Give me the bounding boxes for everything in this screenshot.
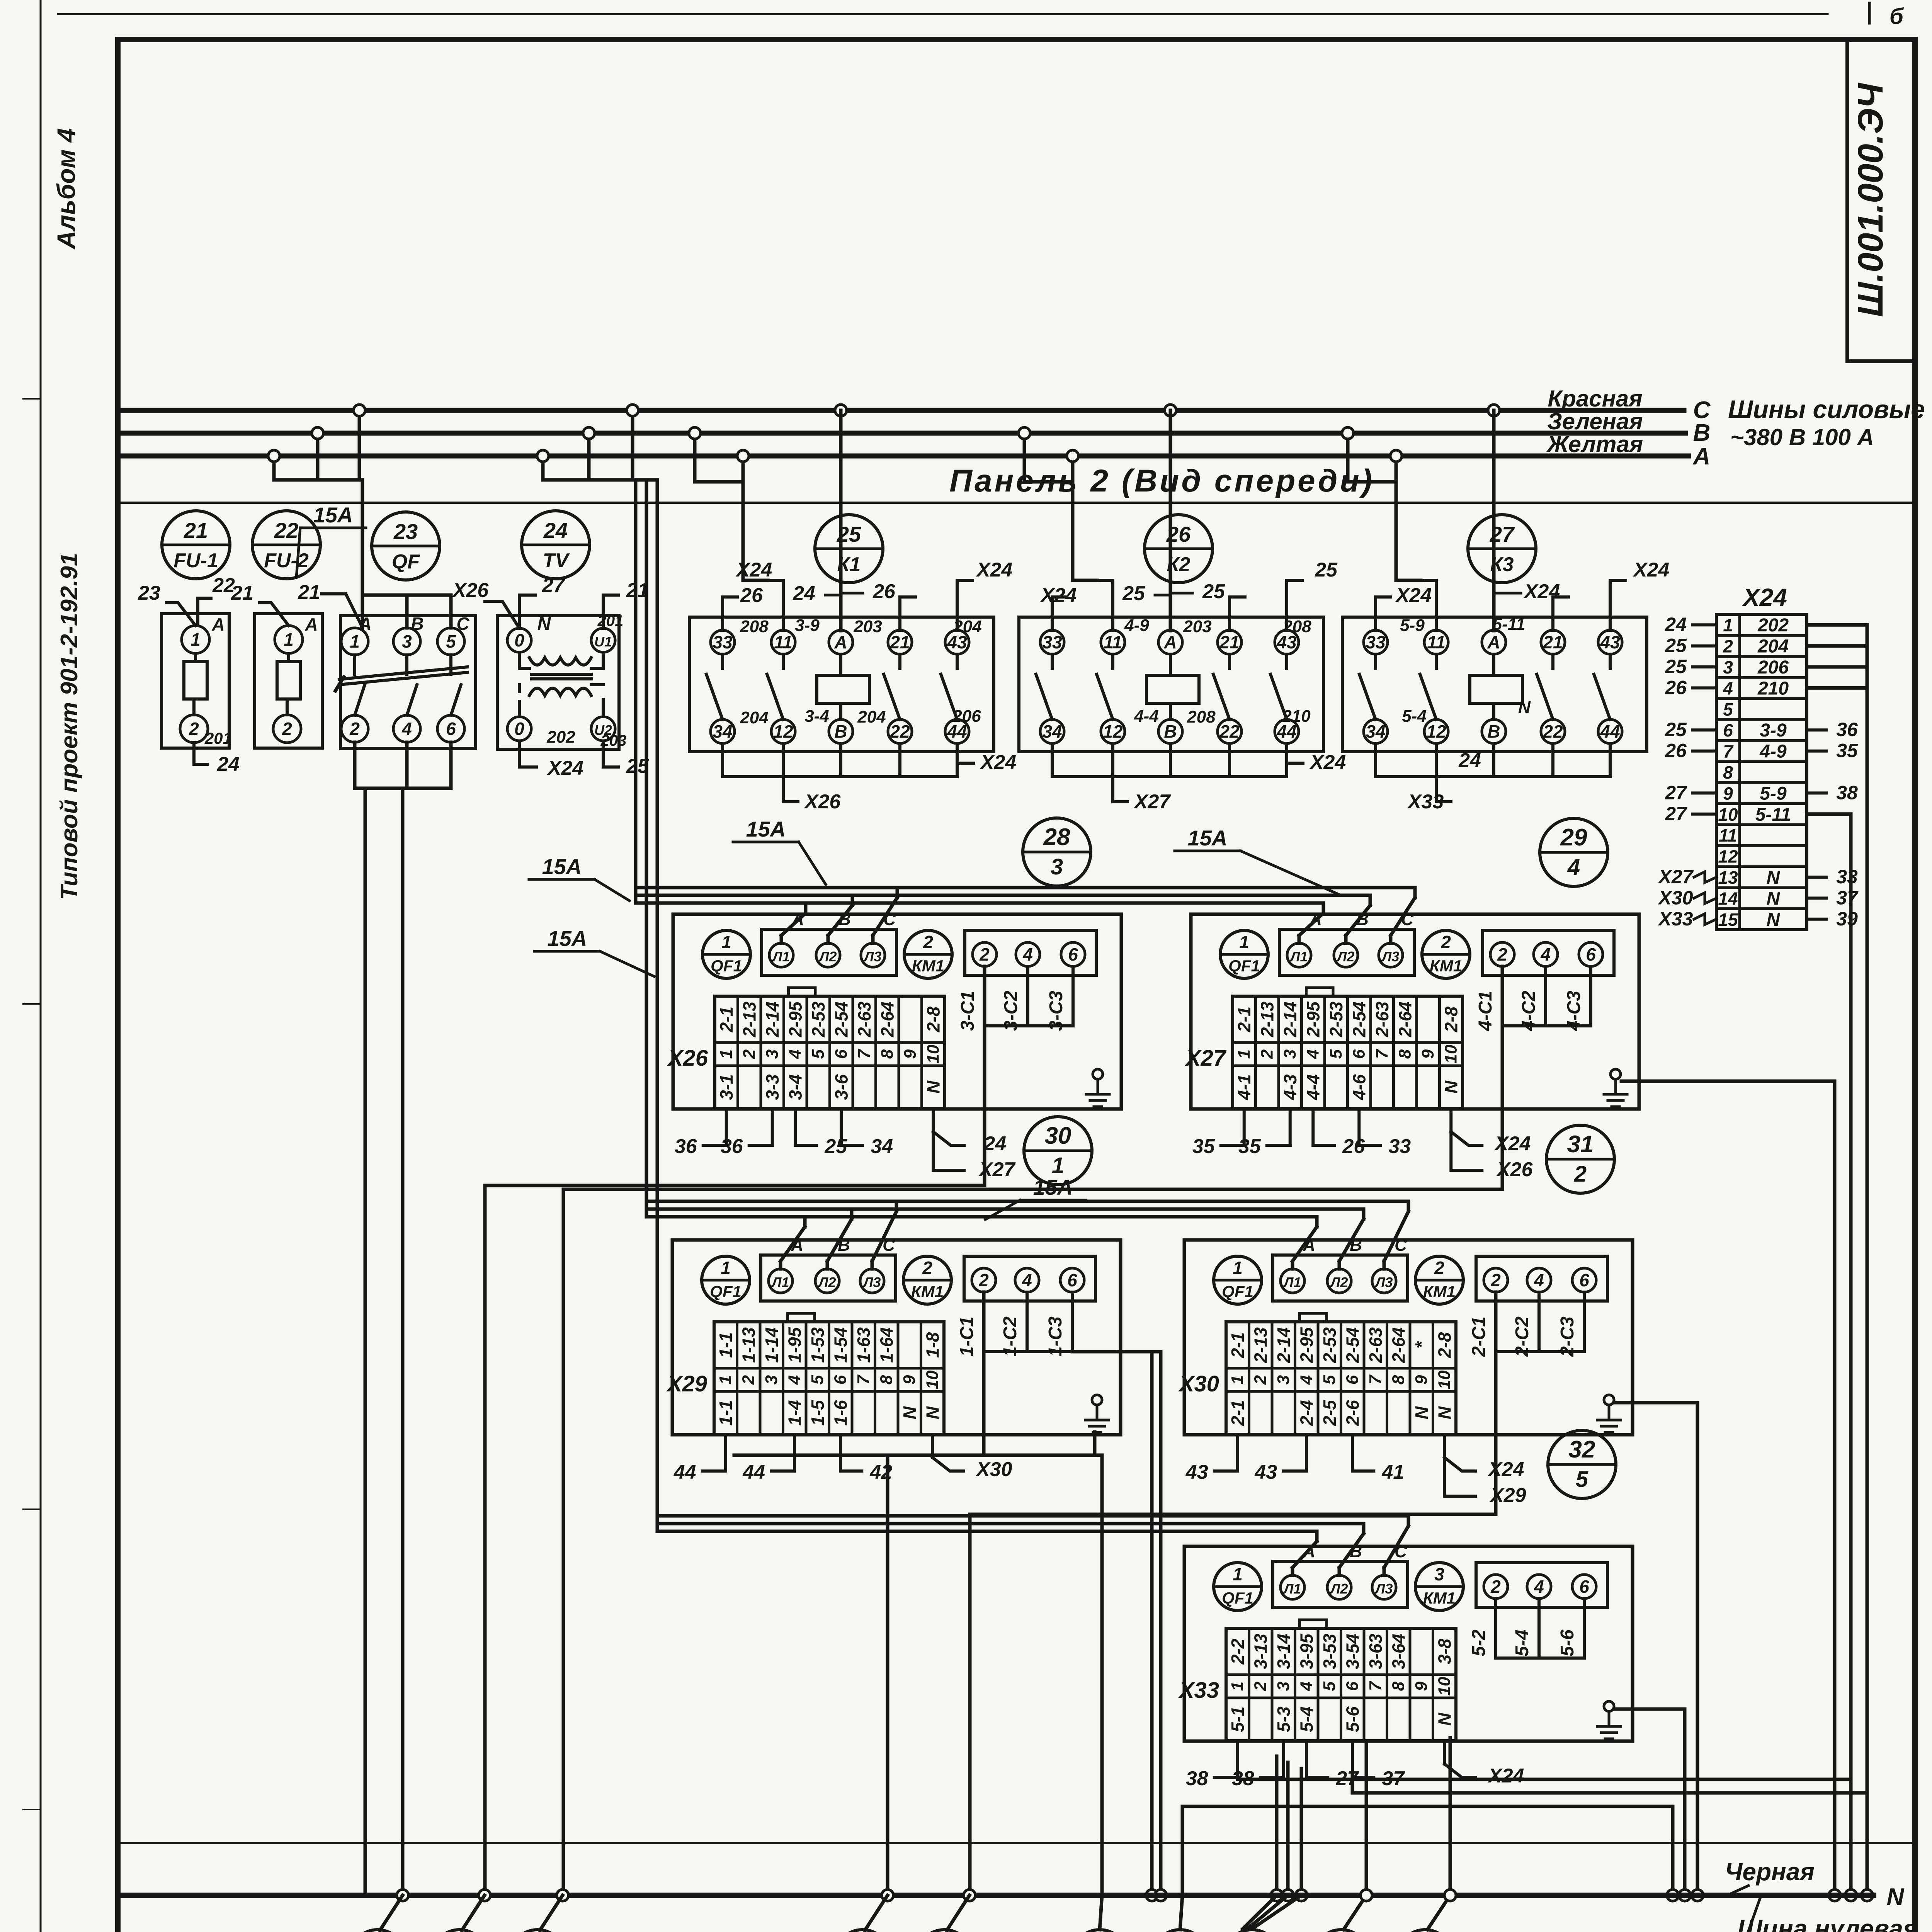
svg-text:2-6: 2-6 xyxy=(1342,1400,1362,1426)
svg-text:4: 4 xyxy=(1534,1270,1544,1290)
svg-text:1-14: 1-14 xyxy=(762,1327,782,1363)
svg-text:9: 9 xyxy=(1723,783,1733,803)
svg-text:Шины силовые: Шины силовые xyxy=(1728,395,1925,423)
svg-text:22: 22 xyxy=(889,721,910,742)
svg-text:3-4: 3-4 xyxy=(785,1074,805,1100)
svg-text:204: 204 xyxy=(1757,636,1789,657)
svg-text:3-6: 3-6 xyxy=(831,1074,851,1100)
svg-text:X30: X30 xyxy=(1178,1371,1219,1396)
svg-text:2-95: 2-95 xyxy=(1303,1001,1323,1037)
svg-text:*: * xyxy=(1412,1341,1432,1349)
svg-text:Л1: Л1 xyxy=(772,949,790,964)
svg-text:Л1: Л1 xyxy=(1283,1581,1301,1597)
svg-text:1-53: 1-53 xyxy=(808,1327,828,1363)
svg-text:43: 43 xyxy=(1185,1461,1208,1483)
svg-text:10: 10 xyxy=(1718,804,1738,825)
svg-text:2: 2 xyxy=(1490,1270,1501,1290)
svg-text:43: 43 xyxy=(1600,632,1620,652)
svg-text:B: B xyxy=(834,721,847,742)
svg-text:24: 24 xyxy=(983,1133,1006,1155)
svg-text:21: 21 xyxy=(626,579,649,602)
svg-text:4: 4 xyxy=(1297,1375,1316,1385)
svg-text:34: 34 xyxy=(1366,721,1385,742)
svg-text:15A: 15A xyxy=(548,926,587,951)
svg-text:4-С1: 4-С1 xyxy=(1475,991,1496,1031)
svg-text:35: 35 xyxy=(1836,740,1858,762)
svg-text:Панель 2 (Вид спереди): Панель 2 (Вид спереди) xyxy=(949,463,1374,498)
svg-text:1: 1 xyxy=(350,631,360,651)
svg-text:206: 206 xyxy=(1757,657,1789,678)
svg-text:208: 208 xyxy=(740,617,769,636)
svg-text:2: 2 xyxy=(1251,1681,1270,1691)
svg-text:10: 10 xyxy=(1441,1044,1460,1063)
svg-text:1-6: 1-6 xyxy=(830,1400,850,1426)
svg-text:FU-1: FU-1 xyxy=(173,549,218,572)
svg-text:1-4: 1-4 xyxy=(784,1400,804,1425)
svg-text:N: N xyxy=(1441,1080,1461,1094)
svg-text:X27: X27 xyxy=(1185,1046,1227,1071)
svg-text:6: 6 xyxy=(1343,1681,1362,1691)
svg-text:1-13: 1-13 xyxy=(738,1327,759,1363)
svg-text:6: 6 xyxy=(832,1049,850,1059)
svg-text:Л2: Л2 xyxy=(818,1274,836,1290)
svg-text:2: 2 xyxy=(189,719,199,739)
svg-text:5-6: 5-6 xyxy=(1342,1706,1362,1732)
svg-text:2: 2 xyxy=(923,932,933,952)
svg-text:33: 33 xyxy=(1366,632,1386,652)
svg-text:X24: X24 xyxy=(1309,751,1346,774)
svg-text:9: 9 xyxy=(900,1375,919,1384)
svg-text:5-2: 5-2 xyxy=(1469,1629,1489,1656)
svg-text:6: 6 xyxy=(1343,1375,1362,1384)
svg-text:41: 41 xyxy=(1381,1461,1404,1483)
svg-text:Л1: Л1 xyxy=(1289,949,1308,964)
svg-text:2-64: 2-64 xyxy=(1388,1327,1408,1363)
svg-text:33: 33 xyxy=(713,632,733,652)
svg-text:2-С1: 2-С1 xyxy=(1469,1316,1489,1357)
svg-text:14: 14 xyxy=(1718,888,1738,908)
svg-text:9: 9 xyxy=(901,1049,920,1059)
svg-text:Ш.001.000.ЭЧ: Ш.001.000.ЭЧ xyxy=(1851,83,1890,317)
svg-text:11: 11 xyxy=(1427,632,1446,652)
svg-text:Л3: Л3 xyxy=(1374,1274,1393,1290)
svg-text:Зеленая: Зеленая xyxy=(1547,408,1643,434)
svg-text:39: 39 xyxy=(1836,908,1858,930)
svg-text:38: 38 xyxy=(1836,782,1858,803)
svg-text:15A: 15A xyxy=(746,817,786,841)
svg-text:3-14: 3-14 xyxy=(1274,1634,1294,1669)
svg-text:1: 1 xyxy=(717,1049,736,1059)
svg-text:10: 10 xyxy=(1435,1370,1454,1389)
svg-text:N: N xyxy=(1767,888,1781,909)
svg-text:N: N xyxy=(1887,1884,1905,1910)
svg-text:КМ1: КМ1 xyxy=(911,1282,944,1301)
svg-text:5-9: 5-9 xyxy=(1400,616,1425,635)
svg-text:27: 27 xyxy=(1490,522,1515,546)
svg-text:24: 24 xyxy=(217,753,240,776)
svg-text:3: 3 xyxy=(1274,1375,1293,1384)
svg-text:5-6: 5-6 xyxy=(1557,1629,1578,1656)
svg-text:24: 24 xyxy=(1458,749,1481,772)
svg-text:9: 9 xyxy=(1412,1681,1431,1691)
svg-text:4: 4 xyxy=(786,1049,804,1059)
svg-text:QF: QF xyxy=(392,551,420,573)
svg-text:11: 11 xyxy=(774,632,793,652)
svg-text:C: C xyxy=(456,614,469,634)
svg-text:Л2: Л2 xyxy=(1336,949,1355,964)
svg-text:6: 6 xyxy=(831,1375,850,1384)
svg-text:202: 202 xyxy=(1757,615,1789,636)
svg-text:~380 В 100 А: ~380 В 100 А xyxy=(1730,424,1874,450)
svg-text:24: 24 xyxy=(1665,614,1687,635)
svg-text:4: 4 xyxy=(1723,678,1733,698)
svg-text:3-С1: 3-С1 xyxy=(957,991,978,1031)
svg-text:N: N xyxy=(922,1406,942,1419)
svg-text:Л3: Л3 xyxy=(863,949,882,964)
svg-text:37: 37 xyxy=(1836,887,1859,908)
svg-text:A: A xyxy=(211,614,224,634)
svg-text:N: N xyxy=(1518,698,1531,717)
svg-text:5-4: 5-4 xyxy=(1296,1706,1316,1732)
svg-text:7: 7 xyxy=(1366,1374,1385,1384)
svg-text:Черная: Черная xyxy=(1725,1858,1815,1886)
svg-text:2-53: 2-53 xyxy=(1320,1327,1340,1363)
svg-text:5: 5 xyxy=(1723,699,1733,719)
svg-text:21: 21 xyxy=(889,632,910,652)
svg-text:3-9: 3-9 xyxy=(795,616,820,635)
svg-text:11: 11 xyxy=(1104,632,1122,652)
svg-text:2-4: 2-4 xyxy=(1296,1400,1316,1426)
svg-text:3-53: 3-53 xyxy=(1320,1634,1340,1669)
svg-text:Желтая: Желтая xyxy=(1546,431,1643,457)
svg-text:1: 1 xyxy=(721,1258,731,1278)
svg-text:3: 3 xyxy=(762,1375,781,1384)
svg-text:3-С3: 3-С3 xyxy=(1046,991,1066,1031)
svg-text:2: 2 xyxy=(1251,1375,1270,1385)
svg-text:7: 7 xyxy=(855,1048,874,1059)
svg-text:31: 31 xyxy=(1567,1131,1594,1158)
svg-text:26: 26 xyxy=(1665,677,1687,698)
svg-text:X24: X24 xyxy=(1040,584,1077,607)
svg-text:X30: X30 xyxy=(1658,887,1693,908)
svg-text:26: 26 xyxy=(740,584,763,607)
svg-text:25: 25 xyxy=(1665,719,1687,740)
svg-text:2-13: 2-13 xyxy=(1257,1002,1277,1037)
svg-text:2: 2 xyxy=(922,1258,932,1278)
svg-text:4: 4 xyxy=(1022,1270,1032,1290)
svg-text:6: 6 xyxy=(1586,944,1596,964)
svg-text:25: 25 xyxy=(1665,656,1687,677)
svg-text:2: 2 xyxy=(349,719,360,739)
svg-text:15A: 15A xyxy=(313,503,353,527)
svg-text:210: 210 xyxy=(1757,678,1789,699)
svg-text:1-64: 1-64 xyxy=(876,1327,896,1363)
svg-text:N: N xyxy=(537,614,551,634)
svg-text:6: 6 xyxy=(1067,1270,1077,1290)
svg-text:202: 202 xyxy=(546,728,575,747)
svg-text:36: 36 xyxy=(1836,719,1858,740)
svg-text:0: 0 xyxy=(514,630,524,650)
svg-text:6: 6 xyxy=(446,719,456,739)
svg-text:X24: X24 xyxy=(980,751,1017,774)
svg-text:3-95: 3-95 xyxy=(1296,1633,1316,1669)
svg-text:2-63: 2-63 xyxy=(854,1002,874,1037)
svg-text:36: 36 xyxy=(675,1135,697,1158)
svg-text:2: 2 xyxy=(740,1049,759,1059)
svg-text:2-13: 2-13 xyxy=(739,1002,759,1037)
svg-text:B: B xyxy=(411,614,423,634)
svg-text:12: 12 xyxy=(773,721,793,742)
svg-text:4-С3: 4-С3 xyxy=(1564,991,1584,1031)
svg-text:2-14: 2-14 xyxy=(1280,1002,1300,1037)
svg-text:1-63: 1-63 xyxy=(854,1327,874,1363)
svg-text:N: N xyxy=(923,1080,943,1094)
svg-text:X24: X24 xyxy=(1487,1458,1524,1481)
svg-text:2-54: 2-54 xyxy=(1349,1002,1369,1037)
svg-text:1: 1 xyxy=(1228,1682,1247,1691)
svg-text:N: N xyxy=(1767,867,1781,888)
svg-text:34: 34 xyxy=(713,721,732,742)
svg-text:X24: X24 xyxy=(1633,559,1670,581)
svg-text:28: 28 xyxy=(1043,824,1070,850)
svg-text:1-54: 1-54 xyxy=(830,1327,850,1363)
svg-text:1-5: 1-5 xyxy=(808,1400,828,1426)
svg-text:3-13: 3-13 xyxy=(1250,1634,1270,1669)
svg-text:15A: 15A xyxy=(1033,1175,1073,1199)
svg-text:5-4: 5-4 xyxy=(1512,1629,1532,1656)
svg-text:B: B xyxy=(1164,721,1177,742)
svg-text:2: 2 xyxy=(1574,1162,1587,1187)
svg-text:2-95: 2-95 xyxy=(1296,1327,1316,1363)
svg-text:26: 26 xyxy=(872,580,896,603)
svg-text:5-4: 5-4 xyxy=(1402,707,1427,726)
svg-text:1: 1 xyxy=(716,1375,735,1384)
svg-text:24: 24 xyxy=(543,518,568,543)
svg-text:12: 12 xyxy=(1718,847,1738,867)
svg-text:1: 1 xyxy=(1235,1049,1253,1059)
svg-text:5-1: 5-1 xyxy=(1228,1706,1248,1732)
svg-text:QF1: QF1 xyxy=(710,1282,742,1301)
svg-text:3: 3 xyxy=(1051,854,1063,879)
svg-text:К3: К3 xyxy=(1490,553,1514,576)
svg-text:2-95: 2-95 xyxy=(785,1001,805,1037)
svg-text:10: 10 xyxy=(923,1370,942,1389)
svg-text:3-1: 3-1 xyxy=(716,1074,736,1100)
svg-text:2: 2 xyxy=(979,944,990,964)
svg-text:8: 8 xyxy=(1389,1375,1408,1384)
svg-text:2-14: 2-14 xyxy=(762,1002,782,1037)
svg-text:X26: X26 xyxy=(667,1046,708,1071)
svg-text:5-11: 5-11 xyxy=(1493,615,1526,634)
svg-text:4: 4 xyxy=(1297,1682,1316,1691)
svg-text:2: 2 xyxy=(282,719,292,739)
svg-text:Л3: Л3 xyxy=(1381,949,1400,964)
svg-text:2-С2: 2-С2 xyxy=(1512,1316,1532,1357)
svg-text:3: 3 xyxy=(1434,1564,1444,1584)
svg-text:X30: X30 xyxy=(975,1458,1012,1481)
svg-text:4: 4 xyxy=(1022,944,1033,964)
svg-text:21: 21 xyxy=(298,581,320,604)
svg-text:8: 8 xyxy=(877,1375,896,1384)
svg-text:КМ1: КМ1 xyxy=(1430,957,1462,975)
svg-text:22: 22 xyxy=(274,518,298,543)
svg-text:1: 1 xyxy=(1723,615,1733,635)
svg-text:Шина нулевая: Шина нулевая xyxy=(1737,1914,1918,1932)
svg-text:1-С1: 1-С1 xyxy=(957,1316,977,1357)
svg-text:4: 4 xyxy=(401,719,412,739)
svg-text:Л3: Л3 xyxy=(1374,1581,1393,1597)
svg-text:27: 27 xyxy=(542,574,565,597)
svg-text:FU-2: FU-2 xyxy=(264,549,309,572)
svg-text:26: 26 xyxy=(1665,740,1687,762)
svg-text:3-9: 3-9 xyxy=(1760,720,1787,741)
svg-text:Л1: Л1 xyxy=(1283,1274,1301,1290)
svg-text:43: 43 xyxy=(1254,1461,1277,1483)
svg-text:34: 34 xyxy=(871,1135,893,1158)
svg-text:2-2: 2-2 xyxy=(1228,1638,1248,1665)
svg-text:Л2: Л2 xyxy=(1330,1581,1348,1597)
svg-text:10: 10 xyxy=(923,1044,942,1063)
svg-text:2-5: 2-5 xyxy=(1320,1400,1340,1426)
svg-text:4-6: 4-6 xyxy=(1349,1074,1369,1100)
svg-text:2-64: 2-64 xyxy=(877,1002,897,1037)
svg-text:N: N xyxy=(900,1406,920,1419)
svg-text:10: 10 xyxy=(1435,1677,1454,1696)
svg-text:4: 4 xyxy=(1303,1049,1322,1059)
svg-text:206: 206 xyxy=(952,707,981,726)
svg-text:2-53: 2-53 xyxy=(808,1002,828,1037)
svg-text:12: 12 xyxy=(1426,721,1446,742)
svg-text:5: 5 xyxy=(1320,1681,1339,1691)
svg-text:X26: X26 xyxy=(452,579,489,602)
svg-text:15: 15 xyxy=(1718,910,1738,930)
svg-text:3-64: 3-64 xyxy=(1388,1634,1408,1669)
svg-text:12: 12 xyxy=(1103,721,1123,742)
svg-text:1-1: 1-1 xyxy=(716,1332,736,1358)
svg-text:4-4: 4-4 xyxy=(1134,707,1159,726)
svg-text:1-95: 1-95 xyxy=(784,1327,804,1363)
svg-text:A: A xyxy=(1163,632,1177,652)
svg-text:7: 7 xyxy=(1366,1680,1385,1691)
svg-text:36: 36 xyxy=(721,1135,743,1158)
svg-text:4: 4 xyxy=(1540,944,1551,964)
svg-text:2: 2 xyxy=(739,1375,758,1385)
svg-text:Красная: Красная xyxy=(1548,386,1642,412)
svg-text:0: 0 xyxy=(514,719,524,739)
svg-text:13: 13 xyxy=(1718,867,1738,888)
svg-text:25: 25 xyxy=(837,522,861,546)
svg-text:2: 2 xyxy=(1490,1577,1501,1597)
svg-text:3-3: 3-3 xyxy=(762,1074,782,1100)
svg-text:X24: X24 xyxy=(1487,1765,1524,1787)
svg-text:33: 33 xyxy=(1042,632,1062,652)
svg-text:Л3: Л3 xyxy=(862,1274,881,1290)
svg-text:2-8: 2-8 xyxy=(923,1006,943,1032)
svg-text:X33: X33 xyxy=(1658,908,1693,930)
svg-text:6: 6 xyxy=(1068,944,1078,964)
svg-text:32: 32 xyxy=(1569,1436,1595,1463)
svg-text:X33: X33 xyxy=(1407,791,1444,813)
svg-text:208: 208 xyxy=(1187,707,1216,726)
svg-text:23: 23 xyxy=(138,582,160,604)
svg-text:5-3: 5-3 xyxy=(1274,1706,1294,1732)
svg-text:QF1: QF1 xyxy=(1222,1589,1253,1607)
svg-text:Л2: Л2 xyxy=(1330,1274,1348,1290)
svg-text:9: 9 xyxy=(1412,1375,1431,1384)
svg-text:21: 21 xyxy=(231,582,253,604)
svg-text:2: 2 xyxy=(1497,944,1507,964)
svg-text:б: б xyxy=(1889,4,1904,29)
svg-text:X27: X27 xyxy=(1133,791,1171,813)
svg-text:Типовой проект 901-2-192.9: Типовой проект 901-2-192.91 xyxy=(56,553,83,900)
svg-text:6: 6 xyxy=(1723,720,1733,740)
svg-text:5: 5 xyxy=(809,1049,828,1059)
svg-text:X24: X24 xyxy=(547,757,584,779)
svg-text:2: 2 xyxy=(1257,1049,1276,1059)
svg-text:3-63: 3-63 xyxy=(1366,1634,1386,1669)
svg-text:КМ1: КМ1 xyxy=(1423,1589,1456,1607)
svg-text:X27: X27 xyxy=(1658,866,1694,888)
svg-text:4-9: 4-9 xyxy=(1124,616,1149,635)
svg-text:2-54: 2-54 xyxy=(831,1002,851,1037)
svg-text:2-1: 2-1 xyxy=(1228,1400,1248,1426)
svg-text:26: 26 xyxy=(1166,522,1191,546)
svg-text:44: 44 xyxy=(673,1461,696,1483)
svg-text:X24: X24 xyxy=(735,559,772,581)
svg-text:3: 3 xyxy=(1281,1049,1299,1059)
svg-text:B: B xyxy=(1487,721,1500,742)
svg-text:11: 11 xyxy=(1719,825,1737,845)
svg-text:204: 204 xyxy=(740,708,768,727)
svg-text:2-8: 2-8 xyxy=(1441,1006,1461,1032)
svg-text:1: 1 xyxy=(721,932,731,952)
svg-text:3: 3 xyxy=(1723,657,1733,677)
svg-text:5: 5 xyxy=(446,631,456,651)
svg-text:38: 38 xyxy=(1186,1767,1208,1790)
svg-text:A: A xyxy=(1692,443,1711,470)
svg-text:21: 21 xyxy=(1543,632,1563,652)
svg-text:4-С2: 4-С2 xyxy=(1519,991,1539,1031)
svg-text:2-53: 2-53 xyxy=(1326,1002,1346,1037)
svg-text:3-8: 3-8 xyxy=(1434,1638,1454,1664)
svg-text:U1: U1 xyxy=(594,634,612,650)
svg-text:X24: X24 xyxy=(1494,1133,1531,1155)
svg-text:1: 1 xyxy=(1239,932,1249,952)
svg-text:3: 3 xyxy=(402,631,412,651)
svg-text:203: 203 xyxy=(1183,617,1211,636)
svg-text:2-63: 2-63 xyxy=(1372,1002,1392,1037)
svg-text:35: 35 xyxy=(1192,1135,1215,1158)
svg-text:2-63: 2-63 xyxy=(1366,1327,1386,1363)
svg-text:33: 33 xyxy=(1388,1135,1411,1158)
svg-text:1: 1 xyxy=(190,629,201,650)
svg-text:1: 1 xyxy=(1233,1258,1243,1278)
svg-text:21: 21 xyxy=(184,518,208,543)
svg-text:33: 33 xyxy=(1836,866,1858,888)
svg-text:7: 7 xyxy=(1372,1048,1391,1059)
svg-text:7: 7 xyxy=(854,1374,873,1384)
svg-text:Л2: Л2 xyxy=(818,949,837,964)
svg-text:203: 203 xyxy=(853,617,882,636)
svg-text:1-8: 1-8 xyxy=(922,1332,942,1358)
svg-text:1: 1 xyxy=(1228,1375,1247,1384)
svg-text:7: 7 xyxy=(1723,742,1734,762)
svg-text:5: 5 xyxy=(1320,1375,1339,1384)
svg-text:3-54: 3-54 xyxy=(1342,1634,1362,1669)
svg-text:25: 25 xyxy=(1315,559,1338,581)
svg-text:8: 8 xyxy=(1389,1681,1408,1691)
svg-text:22: 22 xyxy=(1219,721,1240,742)
